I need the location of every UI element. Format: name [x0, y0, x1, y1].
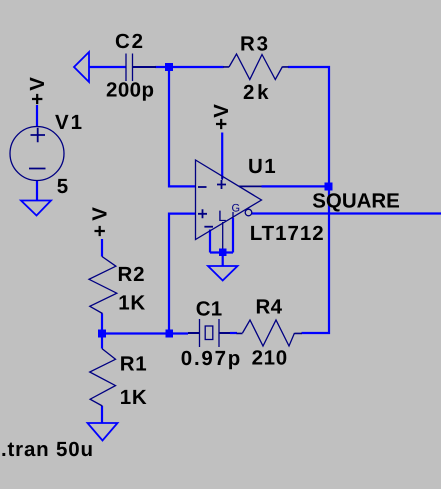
svg-text:R2: R2: [118, 263, 145, 286]
svg-text:200p: 200p: [106, 78, 154, 101]
svg-text:R4: R4: [256, 296, 283, 319]
svg-text:G: G: [232, 203, 241, 215]
svg-text:SQUARE: SQUARE: [312, 189, 400, 212]
svg-text:C2: C2: [115, 30, 143, 53]
svg-text:.tran 50u: .tran 50u: [1, 438, 93, 461]
svg-text:0.97p: 0.97p: [181, 347, 241, 370]
svg-text:+V: +V: [210, 104, 233, 130]
svg-text:R3: R3: [240, 32, 268, 55]
svg-text:V1: V1: [55, 111, 82, 134]
svg-text:+V: +V: [26, 77, 49, 105]
svg-text:LT1712: LT1712: [250, 222, 324, 245]
svg-text:1K: 1K: [120, 386, 147, 409]
svg-text:R1: R1: [120, 352, 147, 375]
svg-text:210: 210: [252, 346, 288, 369]
svg-text:U1: U1: [248, 155, 276, 178]
svg-text:C1: C1: [196, 297, 223, 320]
svg-text:1K: 1K: [118, 291, 145, 314]
svg-text:L: L: [218, 208, 226, 225]
svg-text:5: 5: [57, 175, 68, 198]
